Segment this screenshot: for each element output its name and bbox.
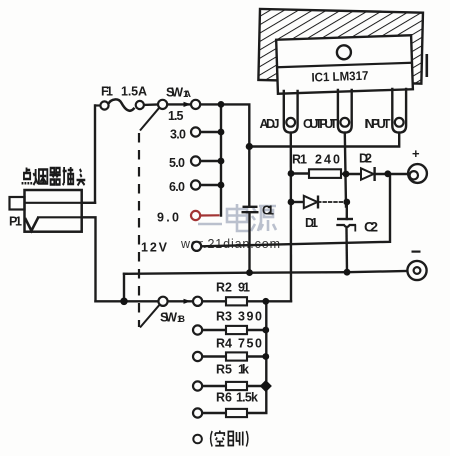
svg-text:D1: D1 <box>305 216 318 230</box>
svg-text:1.5k: 1.5k <box>236 391 258 405</box>
svg-text:6.0: 6.0 <box>169 180 185 194</box>
svg-text:R6: R6 <box>216 391 232 405</box>
svg-text:R2: R2 <box>216 281 232 295</box>
svg-text:IC1 LM317: IC1 LM317 <box>311 69 368 85</box>
svg-text:SW: SW <box>160 311 177 325</box>
svg-text:390: 390 <box>238 310 262 324</box>
svg-text:1k: 1k <box>238 363 249 377</box>
svg-text:P1: P1 <box>9 215 22 229</box>
svg-text:+: + <box>412 146 420 161</box>
svg-text:R5: R5 <box>216 363 232 377</box>
svg-text:SW: SW <box>166 86 183 100</box>
svg-text:F1: F1 <box>101 85 113 99</box>
svg-text:R3: R3 <box>216 310 232 324</box>
svg-text:R4: R4 <box>216 337 232 351</box>
svg-text:750: 750 <box>238 337 262 351</box>
svg-text:ADJ: ADJ <box>260 117 280 131</box>
svg-text:91: 91 <box>238 281 250 295</box>
svg-text:1A: 1A <box>183 89 191 100</box>
svg-text:12V: 12V <box>141 241 168 255</box>
svg-text:D2: D2 <box>359 152 372 166</box>
svg-text:3.0: 3.0 <box>170 128 186 142</box>
svg-text:5.0: 5.0 <box>169 156 185 170</box>
svg-text:C2: C2 <box>364 219 378 235</box>
svg-text:1.5A: 1.5A <box>121 85 147 99</box>
svg-text:OUTPUT: OUTPUT <box>303 117 338 131</box>
svg-text:1.5: 1.5 <box>168 109 184 123</box>
svg-text:240: 240 <box>315 153 340 167</box>
svg-text:9.0: 9.0 <box>157 211 179 225</box>
svg-text:INPUT: INPUT <box>365 117 391 131</box>
svg-text:C1: C1 <box>262 204 274 218</box>
svg-text:1B: 1B <box>177 314 185 325</box>
svg-text:R1: R1 <box>292 153 307 167</box>
